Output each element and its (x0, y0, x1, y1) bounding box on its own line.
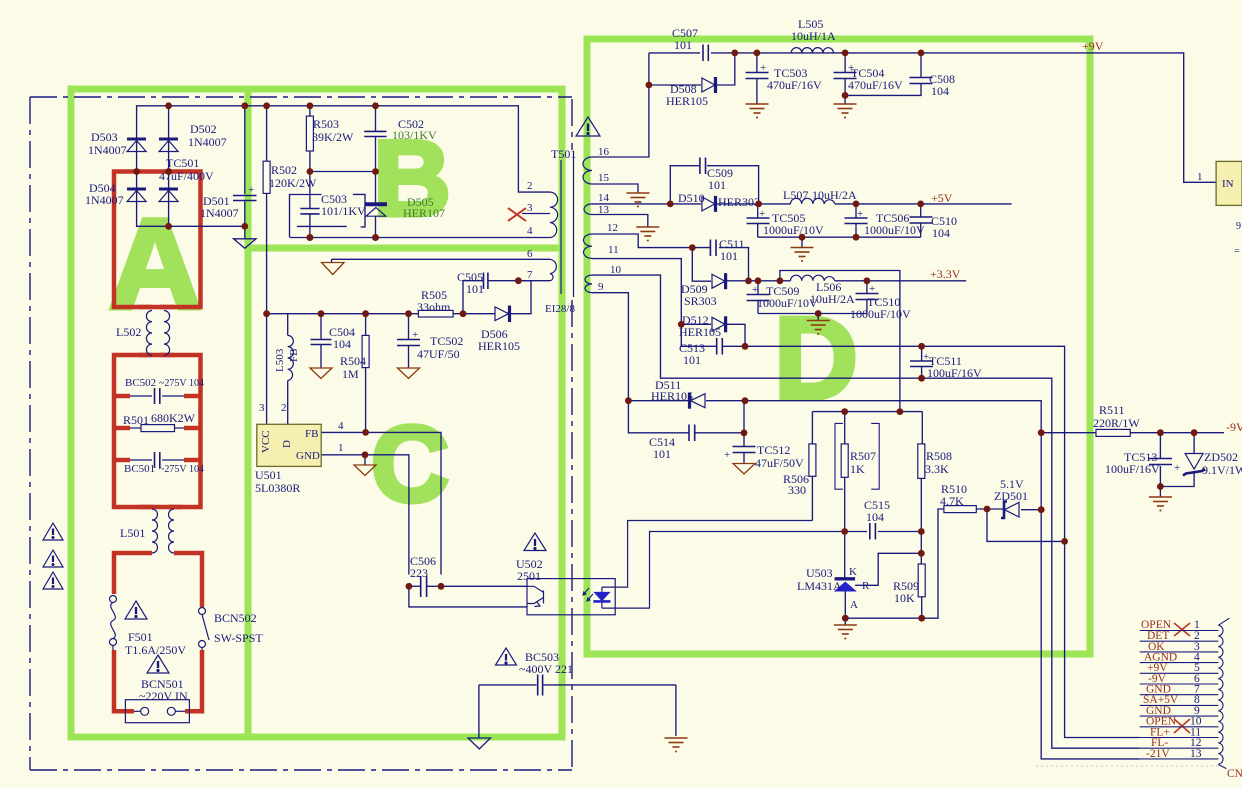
capacitor C507 101 (703, 45, 708, 62)
svg-text:+: + (752, 284, 758, 296)
node D505 bottom (372, 234, 379, 241)
wire pin10 row to FL- drop (592, 275, 1140, 748)
capacitor TC501 47uF/400V (233, 196, 257, 201)
dashed border top (30, 96, 572, 98)
T501 core line secondary (573, 152, 575, 297)
ground U503 (earth, brown) (834, 625, 857, 639)
svg-text:3: 3 (527, 202, 533, 214)
diode D511 HER105 (690, 393, 706, 409)
resistor R511 220R/1W (1096, 429, 1130, 436)
svg-text:9.1V/1W: 9.1V/1W (1202, 463, 1242, 477)
svg-text:33ohm: 33ohm (417, 300, 451, 314)
inductor L502 common-mode choke (146, 311, 169, 356)
wire -9V row (1041, 432, 1096, 434)
svg-text:11: 11 (608, 244, 619, 256)
ground BC503 right (earth, brown) (665, 738, 688, 752)
dashed isolation vertical at x=572 (571, 99, 573, 150)
dashed border bottom (30, 769, 572, 771)
ground +5V rail (earth, brown) (791, 248, 814, 262)
svg-text:+: + (759, 208, 765, 220)
wire C509 bypass (670, 166, 699, 204)
node U503 A (842, 615, 849, 622)
svg-text:-21V: -21V (1146, 748, 1170, 760)
svg-text:L503: L503 (274, 348, 286, 372)
node bypass bottom (897, 408, 904, 415)
node R509 top (918, 550, 925, 557)
svg-text:+: + (1174, 462, 1180, 474)
wire ground stub (817, 314, 819, 321)
svg-text:R503: R503 (313, 117, 339, 131)
node AC left (133, 168, 140, 175)
node C506 right (438, 583, 445, 590)
svg-text:4: 4 (527, 225, 533, 237)
wire C503 column (309, 172, 311, 209)
red wire switch bottom to BCN501 (185, 650, 202, 711)
node D512 out (742, 343, 749, 350)
red stub L501 top left (140, 505, 153, 510)
red stub L502 bottom left (138, 353, 152, 358)
CN pin lines 11-13 ends (1140, 737, 1219, 739)
svg-text:U501: U501 (255, 468, 282, 482)
wire ZD501 to vertical (1021, 509, 1041, 511)
svg-text:6: 6 (527, 248, 533, 260)
wire pin6 row (332, 258, 551, 260)
node -9V left (1038, 429, 1045, 436)
svg-text:~275V 104: ~275V 104 (159, 378, 204, 389)
svg-text:101: 101 (683, 353, 701, 367)
T501 secondary winding 12-11 (584, 234, 593, 258)
wire B bottom bus to T501 pin4 (290, 237, 551, 239)
wire U503 A column (844, 592, 846, 619)
wire C506 plates leads (409, 585, 420, 587)
resistor R502 120K/2W (263, 161, 270, 193)
wire GND pin row (321, 455, 409, 575)
faint dotted line near CN (1036, 765, 1218, 767)
wire R503-C502 link row (310, 171, 376, 173)
node TC502 top (405, 310, 412, 317)
capacitor BC503 ~400V 221 (538, 675, 543, 696)
wire C506 left column to U502 emitter (409, 586, 527, 607)
isolation dashed border (30, 97, 572, 770)
svg-text:1: 1 (338, 442, 344, 454)
node VCC column (263, 310, 270, 317)
capacitor TC504 470uF/16V (834, 73, 857, 79)
svg-text:R508: R508 (926, 449, 952, 463)
diode D503 1N4007 (127, 139, 146, 152)
red wire L501 bottom left to fuse (114, 553, 152, 594)
svg-text:9: 9 (598, 281, 604, 293)
red stub R501 row left (116, 426, 130, 431)
inductor L501 common-mode choke (152, 509, 174, 553)
T501 secondary winding 14-13 (584, 204, 592, 215)
T501 primary winding 6-7 (550, 259, 556, 280)
node D512 anode (678, 321, 685, 328)
wire R503 column (309, 106, 311, 116)
wire ground stub (801, 237, 803, 247)
svg-text:104: 104 (333, 337, 351, 351)
section box B (248, 89, 562, 248)
node C506 left (406, 583, 413, 590)
svg-text:101/1KV: 101/1KV (321, 204, 366, 218)
node +3.3V TC510 (864, 277, 871, 284)
wire D505 stub bottom (375, 216, 377, 237)
node C514 TC512 (741, 429, 748, 436)
node TC504 bottom (842, 92, 849, 99)
capacitor TC513 100uF/16V (1149, 459, 1172, 465)
svg-text:D502: D502 (190, 122, 217, 136)
wire TC513 stub (1159, 433, 1161, 458)
resistor R505 33ohm (418, 310, 453, 317)
inductor L503 FB (288, 335, 294, 380)
wire U503 R pin (855, 553, 921, 585)
warning triangle near BCN501 (147, 655, 169, 673)
svg-text:1000uF/10V: 1000uF/10V (757, 296, 818, 310)
resistor R510 4.7K (944, 506, 976, 513)
svg-text:R511: R511 (1099, 403, 1125, 417)
svg-text:GND: GND (296, 450, 320, 462)
red X on T501 pin3 (508, 208, 526, 221)
red wire L501 bottom right to switch (174, 553, 202, 607)
svg-text:ZD501: ZD501 (994, 489, 1028, 503)
wire L506 bypass over (780, 271, 900, 412)
svg-text:101: 101 (466, 282, 484, 296)
svg-text:5L0380R: 5L0380R (255, 481, 300, 495)
warning triangle left margin 3 (43, 572, 63, 589)
capacitor C514 101 (689, 425, 695, 442)
bracket around C503 left (290, 195, 322, 238)
wire TC505 stub (757, 204, 759, 218)
svg-text:K: K (849, 566, 857, 578)
capacitor C508 104 (910, 78, 933, 84)
wire C505 branch (463, 281, 483, 314)
svg-text:=: = (1234, 246, 1240, 257)
wire BC503 right ground drop (675, 685, 677, 736)
ground U501 GND (triangle, brown) (354, 465, 376, 476)
capacitor TC503 470uF/16V (746, 73, 769, 79)
node L506 bypass (777, 277, 784, 284)
optocoupler U502 2501 (527, 579, 615, 615)
bracket around R507 left (835, 423, 843, 489)
node U503 K row (841, 528, 848, 535)
node AC right (165, 168, 172, 175)
svg-text:+: + (412, 329, 418, 341)
capacitor BC501 (130, 452, 184, 468)
wire pin12 to C511 (592, 234, 710, 248)
U502 LED (601, 587, 603, 592)
svg-text:HER105: HER105 (666, 94, 708, 108)
red stub BC502 row left (116, 394, 130, 399)
wire C515 row leads (845, 531, 867, 533)
resistor R506 330 (809, 444, 816, 476)
dashed border left (29, 97, 31, 770)
node TC513 top (1157, 429, 1164, 436)
svg-text:SR303: SR303 (684, 294, 717, 308)
capacitor C503 101/1KV (300, 209, 319, 214)
section box D (587, 39, 1090, 654)
bracket fragment below C503 (297, 225, 347, 227)
CN body arcs (1218, 625, 1223, 764)
node TC503 top (754, 50, 761, 57)
wire D508 branch (649, 84, 701, 86)
svg-text:R501: R501 (123, 413, 149, 427)
svg-text:BC502: BC502 (125, 377, 156, 389)
svg-text:7: 7 (527, 269, 533, 281)
red X on CN pin10 (1174, 719, 1190, 733)
svg-text:47UF/50: 47UF/50 (417, 347, 460, 361)
wire TC511 stubs (921, 346, 923, 360)
node FL+ branch (1061, 538, 1068, 545)
svg-text:+9V: +9V (1082, 39, 1104, 53)
svg-text:470uF/16V: 470uF/16V (767, 78, 822, 92)
diode D501 1N4007 (159, 189, 178, 202)
fuse F501 T1.6A/250V (110, 596, 117, 651)
node D508 anode (646, 82, 653, 89)
svg-text:100uF/16V: 100uF/16V (1105, 462, 1160, 476)
node TC504 top (842, 50, 849, 57)
svg-text:A: A (109, 193, 201, 336)
svg-text:TC512: TC512 (757, 443, 790, 457)
svg-text:2: 2 (527, 180, 533, 192)
wire C513 branch (681, 324, 716, 346)
svg-text:100uF/16V: 100uF/16V (927, 366, 982, 380)
ground TC512 (triangle, brown) (733, 464, 755, 475)
svg-text:FB: FB (288, 349, 300, 362)
T501 secondary winding 16-15 (583, 157, 592, 184)
wire +3.3V pre-L506 row (726, 280, 791, 282)
diode D502 1N4007 (159, 139, 178, 152)
ground TC509 rail (earth, brown) (807, 321, 830, 335)
wire C504 stub (320, 314, 322, 339)
svg-text:680K2W: 680K2W (151, 411, 196, 425)
node D510 out (755, 201, 762, 208)
svg-text:F501: F501 (128, 630, 153, 644)
warning triangle near fuse (125, 601, 147, 619)
svg-text:U503: U503 (806, 566, 833, 580)
svg-text:4: 4 (338, 420, 344, 432)
svg-text:BC501: BC501 (124, 463, 155, 475)
wire C513 output row to FL+ drop (745, 346, 1140, 737)
svg-text:223: 223 (410, 566, 428, 580)
svg-text:1000uF/10V: 1000uF/10V (850, 307, 911, 321)
capacitor TC506 1000uF/10V (845, 218, 868, 224)
wire +5V ground rail (758, 236, 921, 238)
svg-text:~275V 104: ~275V 104 (159, 464, 204, 475)
connector BCN501 ~220V IN (125, 700, 189, 723)
CN pin lines 1-10 (1140, 630, 1219, 632)
wire BC503 row (479, 684, 537, 686)
svg-text:A: A (850, 599, 858, 611)
wire C506 right column to U502 collector (441, 585, 527, 587)
diode D508 HER105 (702, 77, 716, 93)
node R502 top (263, 102, 270, 109)
wire C514 row (628, 401, 688, 433)
ground C504 (triangle, brown) (310, 368, 332, 379)
svg-text:HER105: HER105 (651, 389, 693, 403)
capacitor C502 103/1KV (364, 131, 386, 136)
svg-text:IN: IN (1222, 178, 1234, 190)
wire L503/D-pin column (287, 314, 289, 336)
wire -9V vertical link (1040, 433, 1042, 510)
svg-text:1: 1 (1197, 171, 1203, 183)
ground TC503 (earth, brown) (746, 104, 769, 118)
wire regulation top rail (812, 411, 922, 413)
ground TC501 (triangle) (234, 239, 257, 249)
svg-text:+: + (760, 62, 766, 74)
svg-text:BCN502: BCN502 (214, 611, 257, 625)
svg-text:T501: T501 (551, 147, 576, 161)
node R508 bottom (918, 528, 925, 535)
zener ZD501 5.1V (1001, 502, 1019, 519)
svg-text:D503: D503 (91, 130, 118, 144)
diode D509 SR303 (712, 273, 726, 289)
red stub L501 top right (168, 505, 181, 510)
svg-text:1N4007: 1N4007 (85, 193, 124, 207)
svg-text:L507: L507 (783, 188, 808, 202)
wire FB row (321, 432, 441, 574)
wire D506 cathode jog (511, 281, 532, 314)
node TC509 ground (815, 310, 822, 317)
svg-text:~220V IN: ~220V IN (139, 689, 188, 703)
wire bridge top bus (137, 106, 550, 192)
svg-text:104: 104 (931, 84, 949, 98)
svg-text:LM431A: LM431A (797, 579, 842, 593)
svg-text:16: 16 (598, 146, 610, 158)
node C502 top (372, 102, 379, 109)
svg-text:10K: 10K (894, 591, 915, 605)
T501 pin3 stub (522, 213, 550, 215)
svg-text:103/1KV: 103/1KV (392, 128, 437, 142)
capacitor C513 101 (717, 338, 723, 355)
node C505 branch (460, 310, 467, 317)
capacitor C510 104 (910, 217, 933, 223)
svg-text:2501: 2501 (517, 569, 541, 583)
wire TC503 stub (756, 53, 758, 72)
resistor R501 680K2W (130, 425, 184, 432)
svg-text:10uH/2A: 10uH/2A (812, 188, 857, 202)
wire D511 row (628, 400, 689, 402)
capacitor C511 101 (710, 240, 716, 257)
svg-text:HER105: HER105 (679, 325, 721, 339)
wire TC502 stub (408, 314, 410, 339)
red stub L502 bottom right (160, 353, 174, 358)
capacitor TC505 1000uF/10V (747, 218, 770, 224)
capacitor TC509 1000uF/10V (747, 295, 770, 301)
wire pin13 ground stub (592, 215, 648, 228)
wire -9V to -21V drop (1041, 510, 1140, 759)
capacitor C505 101 (484, 273, 488, 290)
ground pin13 (earth, brown) (636, 227, 659, 241)
bracket around R507 right (871, 423, 879, 489)
wire BC503 left ground drop (478, 685, 480, 738)
svg-text:47uF/50V: 47uF/50V (755, 456, 804, 470)
svg-text:101: 101 (708, 178, 726, 192)
node ZD501 anode (1038, 506, 1045, 513)
node R503-C503 (307, 168, 314, 175)
svg-text:120K/2W: 120K/2W (269, 176, 317, 190)
svg-text:CN.: CN. (1227, 768, 1242, 780)
node R504 top (362, 310, 369, 317)
svg-text:-9V: -9V (1226, 420, 1242, 434)
svg-text:+: + (248, 184, 254, 196)
capacitor TC502 47UF/50 (397, 340, 420, 346)
U502 light arrows (583, 588, 593, 601)
wire TC501 column (244, 106, 246, 194)
zener ZD502 9.1V/1W (1183, 454, 1205, 476)
red stub L502 top left (138, 305, 152, 310)
node D511 out (742, 397, 749, 404)
inductor L505 10uH/1A (791, 48, 833, 53)
node TC509 top (755, 277, 762, 284)
node C510 top (917, 201, 924, 208)
svg-text:1M: 1M (342, 367, 359, 381)
node R509 bottom (918, 615, 925, 622)
node D508 cathode top (731, 50, 738, 57)
diode D506 HER105 (495, 306, 510, 323)
node C511 left (689, 244, 696, 251)
svg-text:L502: L502 (116, 325, 141, 339)
red stub BC502 row right (184, 394, 199, 399)
wire +5V row (592, 203, 701, 205)
capacitor TC511 100uF/16V (910, 361, 933, 367)
resistor R509 10K (918, 564, 925, 597)
wire C507/D508 left column to pin16 (592, 53, 649, 157)
svg-text:13: 13 (1190, 748, 1202, 760)
wire ZD502 column (1193, 433, 1195, 454)
node pin7 junction (515, 277, 522, 284)
svg-text:15: 15 (598, 172, 610, 184)
inductor L506 10uH/2A (791, 275, 835, 281)
svg-text:C: C (371, 403, 449, 524)
svg-text:+: + (869, 283, 875, 295)
capacitor C504 104 (311, 340, 332, 345)
section box A (71, 39, 1090, 737)
svg-text:101: 101 (653, 447, 671, 461)
capacitor C515 104 (870, 523, 876, 540)
red highlight: filter box BC502/R501/BC501 (114, 355, 201, 507)
wire TC509/TC510 ground rail (758, 313, 867, 315)
wire C502 stubs (375, 106, 377, 131)
wire TC504 stub (844, 53, 846, 72)
svg-text:1K: 1K (850, 462, 865, 476)
ground pin6 (triangle, brown) (322, 263, 345, 275)
svg-text:10: 10 (610, 264, 622, 276)
warning triangle above T501 (576, 117, 600, 136)
wire bridge right column top (168, 106, 170, 172)
svg-text:39K/2W: 39K/2W (312, 130, 354, 144)
ground pin15 (earth, brown) (627, 193, 650, 207)
inductor L507 10uH/2A (791, 198, 835, 204)
resistor R507 1K (841, 444, 848, 477)
svg-text:470uF/16V: 470uF/16V (848, 78, 903, 92)
capacitor TC512 47uF/50V (733, 447, 756, 453)
wire pin7 row (518, 280, 550, 282)
node bridge top D502 (165, 102, 172, 109)
warning triangle BC503 (496, 648, 517, 665)
wire R502 column (top bus to VCC row) (266, 106, 268, 161)
wire +3.3V row after L506 (835, 280, 966, 282)
svg-text:9: 9 (1236, 221, 1241, 232)
T501 primary winding 2-4 (522, 152, 592, 297)
node pin14 C509 (667, 201, 674, 208)
svg-text:220R/1W: 220R/1W (1093, 416, 1140, 430)
wire R510 right to ZD501 (976, 508, 1003, 510)
capacitor C506 223 (421, 576, 427, 597)
IC U501 5L0380R (257, 424, 321, 466)
wire pin9 column (592, 293, 628, 401)
svg-text:HER107: HER107 (403, 206, 445, 220)
svg-text:+: + (724, 449, 730, 461)
node TC501 top (241, 102, 248, 109)
